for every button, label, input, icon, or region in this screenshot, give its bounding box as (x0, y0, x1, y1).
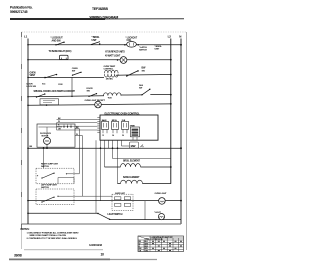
svg-text:SWITCH: SWITCH (139, 50, 147, 52)
switch S1b (91, 42, 100, 45)
tick near BW blob (141, 145, 144, 147)
coil TOD rung 4 (104, 93, 122, 96)
svg-text:OVEN: OVEN (30, 72, 36, 74)
wire drop to switch box 1 (43, 148, 45, 168)
header rule right thin (105, 18, 184, 20)
svg-text:VENT: VENT (30, 75, 36, 77)
node dots rung 6 (27, 147, 29, 149)
svg-text:ELECTRONIC OVEN CONTROL: ELECTRONIC OVEN CONTROL (105, 112, 141, 116)
svg-text:Publication No.: Publication No. (10, 5, 33, 9)
svg-text:WIRE CODE CHART FOR ALL COLORS: WIRE CODE CHART FOR ALL COLORS (30, 234, 67, 237)
terminal block P7 oval (127, 42, 137, 48)
rung 2 wire (28, 59, 171, 61)
svg-text:5995271745: 5995271745 (10, 10, 28, 14)
switch S4c tall (142, 89, 151, 95)
svg-text:BW: BW (131, 144, 136, 148)
svg-text:SWITCH: SWITCH (41, 187, 49, 189)
wire drop right of surf box (144, 201, 146, 220)
wire bundle below EOC (96, 140, 171, 213)
switch S3c (72, 72, 82, 75)
rung 5 wire (28, 104, 95, 107)
wire code table frame (138, 236, 184, 252)
diagram left border (21, 32, 23, 249)
svg-text:TO BAKE RELAY (EOC): TO BAKE RELAY (EOC) (49, 50, 72, 53)
box 1 inner loop wire (58, 178, 74, 184)
svg-text:TOD: TOD (108, 98, 113, 100)
rung 7 wire oven light (28, 200, 159, 202)
svg-text:SW: SW (139, 88, 142, 90)
svg-text:COIL: COIL (127, 40, 133, 42)
svg-text:39/98: 39/98 (14, 253, 22, 257)
broil element resistor (121, 164, 141, 167)
switch S3b (126, 71, 138, 77)
table header diagonal (138, 236, 150, 240)
svg-text:L2: L2 (168, 35, 172, 39)
switch S4b (89, 93, 98, 96)
EOC terminal strip (97, 118, 100, 133)
node dots rung 1 (27, 44, 182, 46)
node dots rung 4 (27, 96, 29, 98)
header publication number text (10, 5, 33, 14)
svg-text:SWITCH: SWITCH (41, 166, 49, 168)
switch S6 infinite 2 (42, 197, 55, 203)
svg-text:40 WATT LIGHT: 40 WATT LIGHT (105, 54, 121, 57)
node dots rung 3 (27, 77, 29, 79)
header rule left thick (10, 18, 105, 20)
svg-text:COM: COM (58, 84, 63, 86)
rung 1 wire (28, 44, 181, 46)
wires inside motor box (39, 126, 63, 128)
svg-text:2. CONTINUED 0 TO 77 OF SEE SP: 2. CONTINUED 0 TO 77 OF SEE SPEC. IN ALL… (27, 237, 78, 240)
svg-text:BAKE ELEMENT: BAKE ELEMENT (123, 176, 140, 179)
relay DLB inside EOC (122, 120, 129, 137)
svg-text:LIGHT SWITCH: LIGHT SWITCH (108, 214, 123, 216)
switch S5 infinite 1 (42, 173, 55, 179)
svg-text:1. DISCONNECT POWER AT ALL CON: 1. DISCONNECT POWER AT ALL CONTROLS BEF.… (27, 232, 80, 235)
svg-text:* LOCKOUT: * LOCKOUT (126, 37, 138, 39)
BW connector blob (130, 142, 139, 148)
svg-text:N.O.: N.O. (42, 83, 46, 85)
svg-text:UNIT: UNIT (92, 39, 98, 42)
switch S7 light (98, 213, 111, 219)
terminal marks motor box (64, 125, 71, 128)
switch S4a (36, 94, 45, 98)
box 2 feed wire (58, 195, 113, 197)
svg-text:3 4: 3 4 (112, 134, 114, 137)
rung 4 wire (28, 96, 104, 97)
rail N (180, 39, 182, 225)
svg-text:5 6: 5 6 (122, 135, 124, 137)
diagram bottom border (22, 223, 182, 225)
rail L1 (27, 39, 29, 225)
plug contacts (115, 197, 131, 206)
relay broil inside EOC (112, 120, 119, 137)
svg-text:OVEN LIGHT: OVEN LIGHT (155, 193, 168, 195)
rung 8 wire light switch (28, 212, 98, 214)
EOC input wires (57, 119, 98, 130)
thermal fuse F1 (60, 55, 69, 59)
door lock motor box (37, 124, 75, 147)
transformer block inside EOC (130, 126, 140, 141)
svg-text:N: N (179, 35, 181, 39)
svg-text:AND SW.: AND SW. (52, 39, 62, 42)
svg-text:L1 P7 N S1 S2 GD: L1 P7 N S1 S2 GD (151, 239, 164, 241)
transformer T1 coils (105, 70, 119, 73)
svg-text:* LATCH: * LATCH (139, 46, 147, 49)
oven light receptacle lamp (95, 101, 102, 108)
bake element wire (118, 183, 121, 185)
svg-text:LOCK SW: LOCK SW (27, 86, 37, 88)
svg-text:24V SEC: 24V SEC (106, 78, 114, 81)
rung 6 wire (28, 147, 181, 149)
table cell marks (152, 241, 182, 251)
relay bake inside EOC (102, 119, 109, 137)
table row lines (138, 240, 184, 249)
rung 8 wire right (110, 219, 181, 221)
table column lines (144, 236, 184, 252)
motor bottom stub (46, 144, 48, 148)
surface switch box 2 dashed (36, 189, 74, 205)
second lamp circle (158, 214, 164, 220)
svg-text:SURF UNIT: SURF UNIT (115, 193, 126, 195)
svg-text:AT SURFACE UNITS: AT SURFACE UNITS (105, 51, 125, 54)
diagram top border (22, 31, 187, 33)
wire vertical interlock (71, 77, 73, 96)
switch S1 lockout (56, 42, 65, 45)
svg-text:BROIL ELEMENT: BROIL ELEMENT (123, 160, 141, 162)
svg-text:TEF362BB: TEF362BB (92, 7, 108, 11)
svg-text:3-16001243: 3-16001243 (89, 243, 103, 247)
motor M circle (44, 137, 51, 144)
svg-text:L1: L1 (24, 35, 28, 39)
relay K1 box (40, 99, 59, 105)
footer rule (24, 249, 103, 251)
oven lamp L40W (120, 57, 127, 64)
svg-text:OVEN LIGHT RECEPT: OVEN LIGHT RECEPT (85, 100, 106, 102)
bake element resistor (121, 180, 143, 183)
svg-text:1 2: 1 2 (102, 135, 104, 137)
rail L2 (170, 39, 172, 184)
svg-text:CONTROL: CONTROL (104, 69, 115, 71)
EOC electronic oven control box (100, 115, 158, 140)
bottom scan smudge (9, 258, 110, 260)
oven light lamp circle (159, 198, 166, 205)
broil element wire (105, 166, 121, 168)
switch S3a (45, 74, 58, 78)
surface unit plug box dashed (112, 194, 133, 210)
diagram right border (186, 32, 188, 250)
svg-text:SPECIAL DOOR LOCK SWITCH CIRCU: SPECIAL DOOR LOCK SWITCH CIRCUIT (34, 90, 76, 93)
svg-text:10: 10 (101, 253, 105, 257)
svg-text:NOTES:: NOTES: (21, 227, 30, 231)
surface switch box 1 dashed (36, 168, 74, 184)
motor box exit wires (75, 128, 79, 130)
node dots rung 2 (27, 59, 29, 61)
node dots rung 5 (27, 104, 29, 106)
rung 3 wire (28, 76, 104, 78)
